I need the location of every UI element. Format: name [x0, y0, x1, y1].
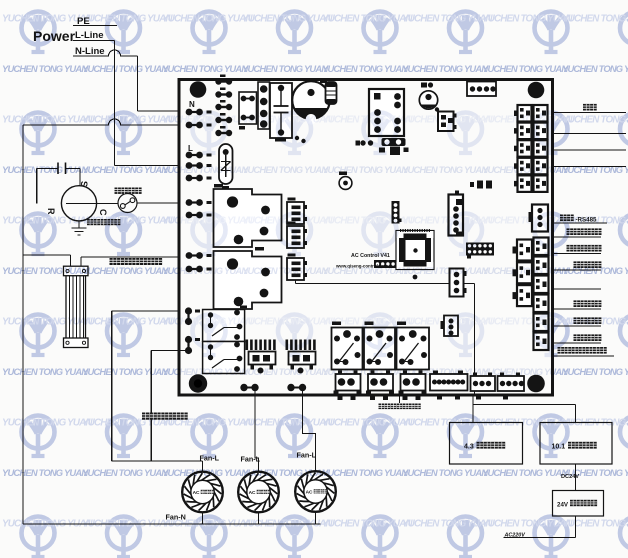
mounting hole top-left [190, 81, 207, 98]
connector bank right-top [518, 105, 532, 122]
svg-text:YUCHEN TONG YUAN: YUCHEN TONG YUAN [562, 14, 628, 25]
svg-text:YUCHEN TONG YUAN: YUCHEN TONG YUAN [322, 467, 408, 478]
svg-text:YUCHEN TONG YUAN: YUCHEN TONG YUAN [242, 14, 333, 25]
relay RL2 [214, 251, 282, 309]
svg-text:YUCHEN TONG YUAN: YUCHEN TONG YUAN [242, 418, 333, 429]
svg-text:YUCHEN TONG YUAN: YUCHEN TONG YUAN [482, 519, 573, 530]
relay K5 [397, 328, 430, 370]
mounting hole bottom-left [189, 374, 207, 392]
svg-text:YUCHEN TONG YUAN: YUCHEN TONG YUAN [242, 115, 333, 126]
transformer T1 [369, 89, 404, 136]
relay K1 label [240, 306, 247, 309]
wire alarm stub [399, 396, 401, 403]
switch SW1 label [115, 188, 121, 194]
wire fan3 live [303, 391, 316, 472]
label dry-contact alarm output [379, 404, 385, 410]
terminal pair HEAT1 [186, 252, 193, 259]
wire fan1 live [111, 311, 113, 461]
connector strip J1 [258, 82, 270, 129]
connector under K4 [368, 374, 393, 391]
fan AC-indoor [295, 471, 336, 512]
svg-text:AC220V: AC220V [504, 533, 526, 539]
svg-text:YUCHEN TONG YUAN: YUCHEN TONG YUAN [402, 317, 493, 328]
relay K1 schematic [203, 310, 245, 342]
svg-text:YUCHEN TONG YUAN: YUCHEN TONG YUAN [322, 164, 408, 175]
connector bank right-low [534, 238, 549, 256]
svg-text:AC: AC [249, 490, 256, 496]
pads below buzzer [295, 136, 299, 140]
svg-text:24V: 24V [557, 502, 569, 509]
svg-text:YUCHEN TONG YUAN: YUCHEN TONG YUAN [562, 63, 628, 74]
svg-text:YUCHEN TONG YUAN: YUCHEN TONG YUAN [2, 63, 88, 74]
svg-text:YUCHEN TONG YUAN: YUCHEN TONG YUAN [162, 14, 253, 25]
wire L-Line vertical [114, 41, 116, 166]
display 4.3inch box [450, 423, 523, 465]
svg-text:YUCHEN TONG YUAN: YUCHEN TONG YUAN [482, 63, 568, 74]
terminal pair vertical V2 [185, 336, 192, 343]
wire return-air-temp with label [554, 355, 614, 357]
svg-text:YUCHEN TONG YUAN: YUCHEN TONG YUAN [242, 467, 328, 478]
wire neutral loop with hump [23, 119, 179, 125]
terminal pair under-board fan2 [240, 384, 247, 391]
connector CN-comb2 [286, 340, 289, 351]
DIP switch SW2 [466, 243, 494, 256]
terminal pair L3 [186, 175, 193, 182]
svg-text:YUCHEN TONG YUAN: YUCHEN TONG YUAN [162, 519, 253, 530]
transformer T1 pads below [382, 138, 406, 146]
svg-text:L-Line: L-Line [75, 30, 104, 41]
svg-text:YUCHEN TONG YUAN: YUCHEN TONG YUAN [322, 317, 413, 328]
relay RL1 [214, 189, 282, 247]
svg-text:YUCHEN TONG YUAN: YUCHEN TONG YUAN [562, 265, 628, 276]
svg-text:YUCHEN TONG YUAN: YUCHEN TONG YUAN [482, 418, 573, 429]
terminal pair HEAT2 [186, 266, 193, 273]
varistor RV1 oval [219, 144, 233, 184]
relay K2 schematic [203, 342, 245, 374]
sounder F6 [421, 83, 427, 88]
wire suction-temp with label [554, 325, 601, 327]
wire heater neutral [70, 255, 72, 267]
svg-text:YUCHEN TONG YUAN: YUCHEN TONG YUAN [2, 115, 93, 126]
wire ambient-temp with label [554, 342, 601, 344]
terminal pair vertical V1 [185, 307, 192, 314]
wire display power [472, 396, 474, 423]
svg-text:Fan-L: Fan-L [241, 455, 261, 464]
svg-text:YUCHEN TONG YUAN: YUCHEN TONG YUAN [162, 63, 248, 74]
svg-text:YUCHEN TONG YUAN: YUCHEN TONG YUAN [322, 14, 413, 25]
svg-text:YUCHEN TONG YUAN: YUCHEN TONG YUAN [482, 467, 568, 478]
svg-text:YUCHEN TONG YUAN: YUCHEN TONG YUAN [82, 317, 173, 328]
connector CN-top [467, 82, 496, 97]
svg-text:YUCHEN TONG YUAN: YUCHEN TONG YUAN [402, 366, 488, 377]
connector CN-alarm [430, 374, 468, 391]
wire LP-sensor with label [554, 253, 601, 255]
svg-text:YUCHEN TONG YUAN: YUCHEN TONG YUAN [562, 317, 628, 328]
wire L to board [115, 165, 180, 167]
wire heater-control-live label [110, 258, 117, 265]
wire neutral loop vertical [22, 125, 24, 524]
svg-text:YUCHEN TONG YUAN: YUCHEN TONG YUAN [242, 216, 333, 227]
svg-text:YUCHEN TONG YUAN: YUCHEN TONG YUAN [322, 216, 413, 227]
connector J5 [449, 195, 464, 236]
svg-text:YUCHEN TONG YUAN: YUCHEN TONG YUAN [82, 467, 168, 478]
connector under K5 [401, 374, 426, 391]
connector CN-display [450, 269, 464, 297]
connector RS485 [532, 205, 548, 232]
svg-text:YUCHEN TONG YUAN: YUCHEN TONG YUAN [162, 418, 253, 429]
svg-text:YUCHEN TONG YUAN: YUCHEN TONG YUAN [82, 519, 173, 530]
terminal pair 215 [186, 212, 193, 219]
terminal pair L1 [186, 152, 193, 159]
svg-text:YUCHEN TONG YUAN: YUCHEN TONG YUAN [2, 519, 93, 530]
wire HP-sensor with label [554, 236, 601, 238]
svg-text:YUCHEN TONG YUAN: YUCHEN TONG YUAN [402, 115, 493, 126]
capacitor C1 block [270, 83, 292, 138]
svg-text:YUCHEN TONG YUAN: YUCHEN TONG YUAN [242, 519, 333, 530]
svg-text:YUCHEN TONG YUAN: YUCHEN TONG YUAN [82, 164, 168, 175]
fuse column F1-F5 [215, 78, 221, 84]
wire heater live [81, 256, 179, 258]
wire spare2 [554, 149, 626, 151]
svg-text:YUCHEN TONG YUAN: YUCHEN TONG YUAN [322, 115, 413, 126]
svg-text:YUCHEN TONG YUAN: YUCHEN TONG YUAN [82, 216, 173, 227]
mounting hole bottom-right [527, 375, 545, 393]
svg-text:YUCHEN TONG YUAN: YUCHEN TONG YUAN [82, 366, 168, 377]
relay K3 [332, 328, 363, 370]
LED D2 [339, 177, 352, 190]
svg-text:YUCHEN TONG YUAN: YUCHEN TONG YUAN [322, 265, 408, 276]
svg-text:YUCHEN TONG YUAN: YUCHEN TONG YUAN [82, 265, 168, 276]
wire fan commons [202, 512, 204, 524]
inductor L1 cylinder [326, 82, 337, 104]
wire spare1 [554, 133, 626, 135]
svg-text:YUCHEN TONG YUAN: YUCHEN TONG YUAN [322, 63, 408, 74]
wire AC220V [575, 516, 577, 538]
svg-text:YUCHEN TONG YUAN: YUCHEN TONG YUAN [562, 366, 628, 377]
wire cap to R junction [36, 168, 38, 203]
header block H1 [374, 260, 396, 268]
svg-text:YUCHEN TONG YUAN: YUCHEN TONG YUAN [562, 115, 628, 126]
MCU U1 QFP [396, 231, 434, 270]
svg-text:YUCHEN TONG YUAN: YUCHEN TONG YUAN [242, 265, 328, 276]
svg-text:YUCHEN TONG YUAN: YUCHEN TONG YUAN [82, 115, 173, 126]
svg-text:S: S [79, 181, 89, 187]
terminal pair N2 [186, 122, 193, 129]
connector strip J2 [392, 201, 400, 224]
svg-text:YUCHEN TONG YUAN: YUCHEN TONG YUAN [562, 467, 628, 478]
svg-text:YUCHEN TONG YUAN: YUCHEN TONG YUAN [402, 467, 488, 478]
wire discharge-temp with label [554, 308, 601, 310]
svg-text:YUCHEN TONG YUAN: YUCHEN TONG YUAN [2, 366, 88, 377]
wire fan2 live [255, 391, 259, 472]
svg-text:YUCHEN TONG YUAN: YUCHEN TONG YUAN [402, 63, 488, 74]
connector CN-comb1 [246, 340, 249, 351]
wire N-Line vertical [137, 56, 139, 111]
diode D1 pads [477, 181, 483, 189]
svg-text:YUCHEN TONG YUAN: YUCHEN TONG YUAN [562, 216, 628, 227]
connector CN-b2 [498, 376, 525, 391]
svg-text:YUCHEN TONG YUAN: YUCHEN TONG YUAN [402, 164, 488, 175]
bridge rectifier BR1 [239, 92, 257, 124]
terminal pair COMP [186, 199, 193, 206]
connector CN-b1 [471, 376, 496, 391]
svg-text:AC: AC [193, 490, 200, 496]
svg-text:YUCHEN TONG YUAN: YUCHEN TONG YUAN [322, 418, 413, 429]
svg-text:YUCHEN TONG YUAN: YUCHEN TONG YUAN [2, 418, 93, 429]
svg-text:N-Line: N-Line [75, 46, 105, 57]
svg-text:YUCHEN TONG YUAN: YUCHEN TONG YUAN [2, 467, 88, 478]
wire N-Line with crossover hump [73, 50, 138, 56]
wire Fan-N [23, 523, 321, 525]
connector CN3C [287, 258, 304, 280]
mounting hole top-right [528, 82, 545, 99]
svg-text:YUCHEN TONG YUAN: YUCHEN TONG YUAN [2, 164, 88, 175]
wire water-temp with label [554, 269, 601, 271]
pads left of transformer [360, 140, 365, 145]
wire display signal [295, 280, 297, 284]
wire spare3 [554, 166, 626, 168]
svg-text:YUCHEN TONG YUAN: YUCHEN TONG YUAN [82, 418, 173, 429]
wire N to board row1 [138, 110, 180, 112]
wire RS485 with label [554, 222, 607, 224]
terminal pair under-board fan3 [287, 384, 294, 391]
ground [78, 221, 80, 228]
fan AC-outdoor-1 [182, 472, 223, 513]
svg-text:YUCHEN TONG YUAN: YUCHEN TONG YUAN [242, 366, 328, 377]
wire PE [73, 25, 117, 27]
svg-text:YUCHEN TONG YUAN: YUCHEN TONG YUAN [82, 63, 168, 74]
svg-text:YUCHEN TONG YUAN: YUCHEN TONG YUAN [2, 14, 93, 25]
wire DC24V [575, 464, 577, 491]
heater RH1 [66, 276, 86, 339]
display 10.1inch box [540, 423, 612, 465]
svg-text:YUCHEN TONG YUAN: YUCHEN TONG YUAN [242, 164, 328, 175]
svg-text:YUCHEN TONG YUAN: YUCHEN TONG YUAN [402, 14, 493, 25]
wire L-Line horizontal [73, 40, 115, 42]
relay K4 [364, 328, 395, 370]
connector under K3 [336, 374, 361, 391]
wire S terminal [79, 168, 81, 186]
buzzer BZ1 [292, 81, 330, 119]
svg-text:YUCHEN TONG YUAN: YUCHEN TONG YUAN [2, 265, 88, 276]
svg-text:YUCHEN TONG YUAN: YUCHEN TONG YUAN [402, 418, 493, 429]
connector CN-E1 [438, 112, 454, 132]
svg-text:N: N [189, 100, 195, 109]
svg-text:YUCHEN TONG YUAN: YUCHEN TONG YUAN [562, 164, 628, 175]
label heating control live [142, 413, 149, 420]
svg-text:YUCHEN TONG YUAN: YUCHEN TONG YUAN [242, 317, 333, 328]
fan AC-outdoor-2 [238, 472, 279, 513]
connector CN-3d [444, 316, 458, 337]
svg-text:YUCHEN TONG YUAN: YUCHEN TONG YUAN [2, 317, 93, 328]
terminal pair L2 [186, 162, 193, 169]
PCB board outline [179, 80, 553, 396]
svg-text:YUCHEN TONG YUAN: YUCHEN TONG YUAN [242, 63, 328, 74]
compressor M1 [61, 186, 96, 221]
wire door-sensor with label [554, 112, 626, 114]
svg-text:YUCHEN TONG YUAN: YUCHEN TONG YUAN [2, 216, 93, 227]
compressor label scroll-compressor [87, 219, 93, 225]
svg-text:YUCHEN TONG YUAN: YUCHEN TONG YUAN [402, 265, 488, 276]
svg-text:YUCHEN TONG YUAN: YUCHEN TONG YUAN [82, 14, 173, 25]
wire spare4 [554, 288, 601, 290]
svg-text:YUCHEN TONG YUAN: YUCHEN TONG YUAN [162, 467, 248, 478]
svg-text:YUCHEN TONG YUAN: YUCHEN TONG YUAN [482, 14, 573, 25]
wire switch to board [137, 202, 179, 204]
terminal pair N1 [186, 109, 193, 116]
svg-text:YUCHEN TONG YUAN: YUCHEN TONG YUAN [402, 519, 493, 530]
power supply 24V box [553, 491, 604, 517]
capacitor C-run [37, 167, 58, 169]
svg-text:YUCHEN TONG YUAN: YUCHEN TONG YUAN [402, 216, 493, 227]
svg-text:YUCHEN TONG YUAN: YUCHEN TONG YUAN [322, 366, 408, 377]
switch SW1 pressure switch [118, 194, 137, 213]
svg-text:YUCHEN TONG YUAN: YUCHEN TONG YUAN [322, 519, 413, 530]
svg-text:YUCHEN TONG YUAN: YUCHEN TONG YUAN [562, 519, 628, 530]
connector CN3B [287, 226, 304, 248]
pads under board edge [338, 397, 343, 401]
connector CN3A [287, 202, 304, 224]
svg-text:YUCHEN TONG YUAN: YUCHEN TONG YUAN [562, 418, 628, 429]
svg-text:AC: AC [306, 490, 313, 496]
